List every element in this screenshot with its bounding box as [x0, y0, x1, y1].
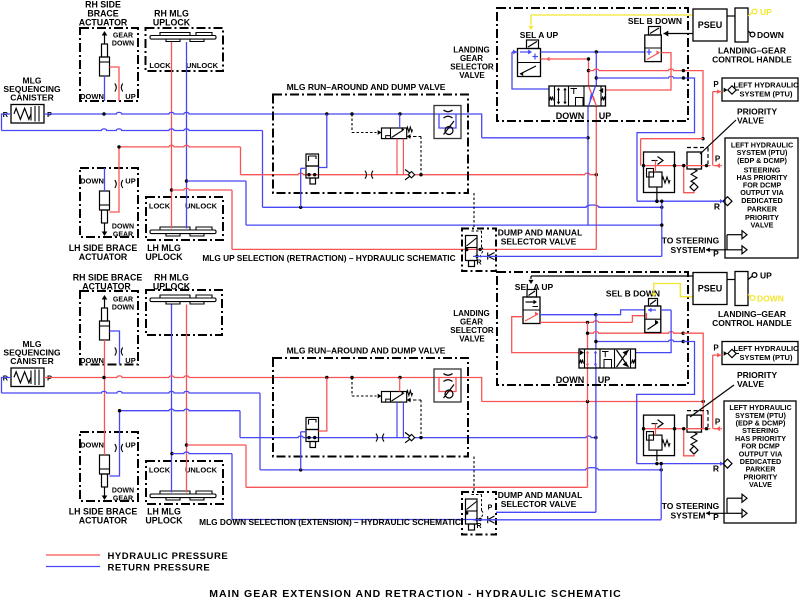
svg-text:MLG UP SELECTION (RETRACTION): MLG UP SELECTION (RETRACTION) – HYDRAULI… [202, 253, 455, 263]
svg-text:SELECTOR VALVE: SELECTOR VALVE [501, 237, 577, 247]
svg-text:CONTROL HANDLE: CONTROL HANDLE [712, 55, 792, 65]
svg-text:UNLOCK: UNLOCK [185, 466, 218, 475]
svg-text:ACTUATOR: ACTUATOR [79, 17, 128, 27]
svg-text:UP: UP [760, 7, 772, 17]
svg-text:GEAR: GEAR [113, 232, 133, 239]
svg-text:SEL B DOWN: SEL B DOWN [628, 16, 682, 26]
svg-text:SYSTEM: SYSTEM [671, 245, 706, 255]
svg-text:DOWN: DOWN [556, 111, 585, 121]
svg-text:UP: UP [125, 356, 135, 365]
svg-text:MAIN GEAR EXTENSION AND RETRAC: MAIN GEAR EXTENSION AND RETRACTION - HYD… [209, 588, 621, 600]
svg-text:PSEU: PSEU [698, 20, 723, 30]
svg-text:ACTUATOR: ACTUATOR [79, 252, 128, 262]
svg-text:UNLOCK: UNLOCK [186, 61, 219, 70]
svg-text:DOWN: DOWN [80, 92, 104, 101]
svg-text:R: R [476, 260, 481, 267]
svg-text:DOWN: DOWN [556, 375, 585, 385]
svg-text:CANISTER: CANISTER [10, 356, 53, 366]
svg-text:UP: UP [760, 271, 772, 281]
svg-text:DOWN: DOWN [112, 224, 134, 231]
svg-text:UPLOCK: UPLOCK [145, 252, 183, 262]
svg-text:VALVE: VALVE [737, 116, 764, 126]
svg-text:GEAR: GEAR [113, 33, 133, 40]
svg-text:LOCK: LOCK [149, 202, 171, 211]
svg-text:UP: UP [599, 111, 612, 121]
svg-text:SYSTEM (PTU): SYSTEM (PTU) [740, 353, 793, 362]
svg-text:UP: UP [598, 375, 611, 385]
svg-text:DOWN: DOWN [80, 356, 104, 365]
svg-text:UP: UP [125, 92, 135, 101]
svg-text:P: P [713, 512, 719, 522]
svg-text:UPLOCK: UPLOCK [153, 17, 191, 27]
svg-text:P: P [713, 80, 719, 89]
svg-text:SEL A UP: SEL A UP [515, 282, 554, 292]
svg-text:GEAR: GEAR [113, 297, 133, 304]
svg-text:UPLOCK: UPLOCK [145, 516, 183, 526]
svg-text:MLG RUN–AROUND AND DUMP VALVE: MLG RUN–AROUND AND DUMP VALVE [287, 346, 446, 356]
svg-text:P: P [713, 344, 719, 353]
svg-text:UP: UP [125, 177, 135, 186]
svg-text:P: P [488, 505, 493, 512]
svg-text:UNLOCK: UNLOCK [185, 202, 218, 211]
svg-text:MLG RUN–AROUND AND DUMP VALVE: MLG RUN–AROUND AND DUMP VALVE [287, 82, 446, 92]
svg-text:P: P [713, 249, 719, 259]
svg-text:R: R [476, 523, 481, 530]
svg-text:VALVE: VALVE [749, 480, 772, 489]
svg-text:SYSTEM: SYSTEM [671, 510, 706, 520]
svg-text:R: R [713, 464, 719, 474]
svg-text:GEAR: GEAR [113, 496, 133, 503]
svg-text:CANISTER: CANISTER [10, 92, 53, 102]
svg-text:(EDP & DCMP): (EDP & DCMP) [737, 156, 787, 165]
svg-text:VALVE: VALVE [737, 379, 764, 389]
svg-text:LOCK: LOCK [149, 466, 171, 475]
svg-text:SYSTEM (PTU): SYSTEM (PTU) [740, 90, 793, 99]
svg-text:VALVE: VALVE [751, 221, 774, 230]
svg-text:SEL A UP: SEL A UP [520, 30, 559, 40]
svg-text:PARKER: PARKER [747, 204, 778, 213]
svg-text:DOWN: DOWN [112, 305, 134, 312]
svg-text:DOWN: DOWN [112, 488, 134, 495]
svg-text:VALVE: VALVE [459, 71, 485, 80]
svg-text:SELECTOR VALVE: SELECTOR VALVE [501, 499, 577, 509]
svg-text:HYDRAULIC PRESSURE: HYDRAULIC PRESSURE [108, 551, 229, 562]
svg-text:VALVE: VALVE [459, 335, 485, 344]
svg-text:P: P [715, 155, 721, 164]
svg-text:CONTROL HANDLE: CONTROL HANDLE [712, 318, 792, 328]
svg-text:PSEU: PSEU [698, 284, 723, 294]
svg-text:LEFT HYDRAULIC: LEFT HYDRAULIC [734, 81, 800, 90]
svg-text:DOWN: DOWN [112, 41, 134, 48]
svg-text:RETURN PRESSURE: RETURN PRESSURE [108, 563, 211, 574]
svg-text:LOCK: LOCK [149, 61, 171, 70]
svg-text:ACTUATOR: ACTUATOR [79, 516, 128, 526]
svg-text:UP: UP [125, 441, 135, 450]
svg-text:R: R [714, 202, 720, 212]
svg-text:DOWN: DOWN [757, 30, 784, 40]
svg-text:ACTUATOR: ACTUATOR [82, 282, 131, 292]
svg-text:LEFT HYDRAULIC: LEFT HYDRAULIC [734, 344, 800, 353]
svg-text:P: P [715, 418, 721, 427]
svg-text:DOWN: DOWN [80, 441, 104, 450]
svg-text:MLG DOWN SELECTION (EXTENSION): MLG DOWN SELECTION (EXTENSION) – HYDRAUL… [199, 517, 461, 527]
svg-text:DOWN: DOWN [757, 294, 784, 304]
svg-text:DOWN: DOWN [80, 177, 104, 186]
